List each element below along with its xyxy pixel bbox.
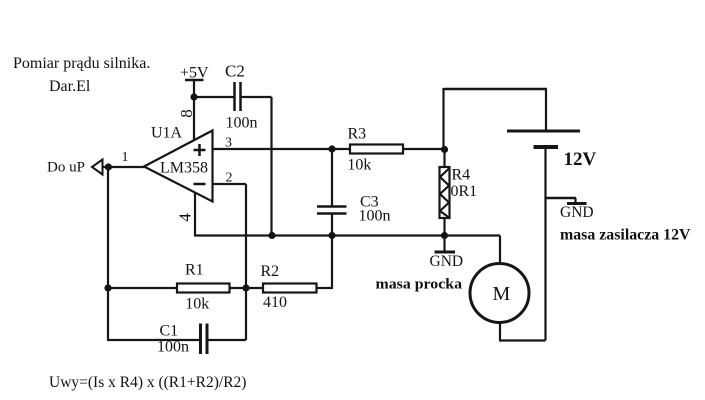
svg-text:4: 4: [176, 213, 195, 222]
battery 12V top plate: [507, 130, 580, 133]
svg-text:0R1: 0R1: [451, 183, 478, 200]
wire C2 right vertical down to ground line: [270, 97, 272, 236]
wire R3 right: [403, 148, 445, 150]
wire C2 left: [194, 96, 234, 98]
resistor R4 zigzag: [440, 169, 449, 218]
wire R2 up to ground line: [331, 236, 333, 290]
svg-text:10k: 10k: [185, 296, 209, 313]
svg-text:Pomiar prądu silnika.: Pomiar prądu silnika.: [13, 55, 150, 72]
node dot R1-R2 junction: [242, 284, 249, 291]
capacitor C3 stub top: [331, 149, 333, 206]
node dot pin3/R3/C3 junction: [328, 145, 335, 152]
svg-text:Dar.El: Dar.El: [49, 78, 91, 95]
wire C1 left: [107, 339, 200, 341]
wire motor bottom: [499, 323, 501, 341]
svg-text:GND: GND: [560, 204, 594, 221]
ground GND bar below R4: [435, 251, 456, 254]
node dot +5V junction: [190, 93, 197, 100]
svg-text:U1A: U1A: [151, 125, 183, 142]
resistor R4 body: [440, 167, 450, 218]
ground GND stub from battery line: [546, 197, 577, 200]
svg-text:100n: 100n: [157, 339, 189, 356]
node dot C2 ground junction: [268, 232, 275, 239]
wire feedback vertical left: [107, 167, 109, 340]
svg-text:Do uP: Do uP: [47, 160, 85, 176]
wire pin1 output to op-amp apex: [101, 166, 145, 168]
svg-text:C2: C2: [225, 62, 245, 81]
wire pin4 vertical: [194, 192, 196, 237]
wire pin2 horizontal: [212, 183, 246, 185]
svg-text:C1: C1: [160, 323, 179, 340]
svg-text:R4: R4: [452, 167, 471, 184]
capacitor C1 plates: [199, 324, 202, 355]
node dot R1 left junction: [104, 284, 111, 291]
svg-text:masa zasilacza 12V: masa zasilacza 12V: [560, 227, 691, 244]
wire R4 bottom stub: [443, 218, 445, 236]
wire top rail left vertical: [442, 88, 444, 150]
wire pin3 horizontal: [212, 148, 350, 150]
node dot C3 ground junction: [328, 232, 335, 239]
node dot R4 ground junction: [441, 232, 448, 239]
wire battery top vertical: [545, 89, 547, 130]
op-amp plus input symbol: [194, 149, 206, 152]
wire vertical pin2 feedback column: [245, 184, 247, 340]
ground GND bar near battery: [567, 202, 587, 205]
wire R4 top stub: [443, 149, 445, 167]
wire pin8 vertical: [193, 80, 195, 141]
svg-text:100n: 100n: [359, 208, 391, 225]
svg-text:masa procka: masa procka: [376, 277, 463, 293]
svg-text:2: 2: [226, 171, 233, 186]
svg-text:3: 3: [225, 136, 232, 151]
node dot R3/R4 junction: [441, 146, 448, 153]
svg-text:12V: 12V: [564, 149, 597, 170]
wire top rail: [444, 88, 548, 91]
node dot pin1/feedback junction: [105, 163, 112, 170]
arrowhead Do uP: [92, 160, 103, 175]
wire R1 left: [108, 287, 177, 289]
wire ground line horizontal: [195, 234, 445, 236]
svg-text:R3: R3: [348, 126, 367, 143]
svg-text:10k: 10k: [347, 157, 371, 174]
op-amp U1A triangle: [144, 131, 213, 202]
+5V supply bar: [185, 79, 204, 82]
svg-text:100n: 100n: [226, 115, 258, 132]
svg-text:LM358: LM358: [160, 160, 208, 177]
svg-text:R1: R1: [185, 262, 204, 279]
resistor R2 body: [263, 284, 317, 293]
wire C2 right: [242, 96, 272, 98]
op-amp minus input symbol: [194, 183, 206, 186]
wire to motor top: [445, 234, 501, 236]
capacitor C3 plates: [317, 205, 347, 208]
wire R2 right: [317, 287, 333, 289]
capacitor C2 plates: [233, 82, 236, 111]
svg-text:M: M: [493, 283, 511, 305]
ground GND stub below R4: [443, 236, 445, 252]
motor M circle: [470, 264, 529, 323]
battery 12V bottom plate: [534, 145, 559, 149]
svg-text:410: 410: [263, 294, 287, 311]
svg-text:R2: R2: [261, 263, 280, 280]
resistor R3 body: [350, 145, 403, 154]
svg-text:GND: GND: [430, 253, 464, 270]
wire right vertical up to battery: [544, 149, 546, 341]
svg-text:+5V: +5V: [180, 65, 209, 82]
svg-text:Uwy=(Is x R4) x ((R1+R2)/R2): Uwy=(Is x R4) x ((R1+R2)/R2): [49, 374, 246, 391]
wire C1 right: [209, 339, 247, 341]
wire R1-R2 middle: [230, 287, 264, 289]
svg-text:1: 1: [122, 150, 129, 165]
svg-text:8: 8: [177, 109, 196, 118]
resistor R1 body: [177, 284, 230, 293]
capacitor C3 stub bottom: [331, 215, 333, 236]
